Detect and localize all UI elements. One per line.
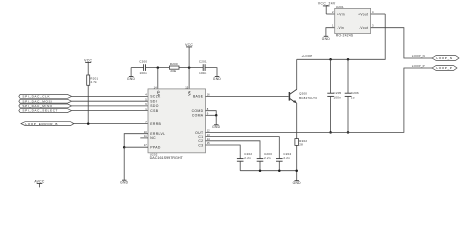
svg-text:C206: C206 [351,91,359,95]
svg-text:SPI_DAC_MISO: SPI_DAC_MISO [22,104,52,108]
ground GND (right of C201) [213,77,222,82]
svg-text:C3: C3 [198,143,203,147]
wire R201 to ERRB net [87,85,89,123]
port SPI_DAC_SELECT [19,109,72,113]
svg-text:R200: R200 [170,62,178,66]
svg-text:VD: VD [156,90,160,96]
svg-text:ERRB: ERRB [150,122,161,126]
wire PPAD [124,146,148,148]
capacitor C206 [345,59,359,132]
svg-text:100n: 100n [199,71,207,75]
svg-text:SPI_DAC_SELECT: SPI_DAC_SELECT [22,109,58,113]
svg-text:LOOP_N: LOOP_N [436,56,452,60]
svg-text:10: 10 [144,130,147,134]
ground GND (bottom right) [293,181,302,186]
power VCC_24V [318,2,336,14]
svg-text:GND: GND [213,77,222,81]
wire ERRLVL to PPAD junction [124,134,148,148]
capacitor C201 [199,60,207,75]
wire to gnd [215,115,217,124]
port LOOP_ERROR_B [21,122,74,126]
dc-dc module U201 RO-2424S [335,5,371,38]
wire +Vout to +LOOP rail [371,13,386,15]
svg-text:+Vin: +Vin [337,12,345,16]
wire R202 to rail [296,145,298,180]
pin numbers U201 [332,10,374,28]
port SPI_DAC_MOSI [19,99,72,103]
svg-text:SDI: SDI [150,100,157,104]
pin numbers U202 right [207,93,210,146]
svg-text:LOOP_ERROR_B: LOOP_ERROR_B [25,122,58,126]
svg-text:GND: GND [127,77,136,81]
resistor R200 [169,62,179,73]
svg-text:20E: 20E [170,69,176,73]
wire SPI_DAC_MOSI to SDI [72,100,148,102]
power AVCC (bottom left) [34,179,45,187]
svg-text:BASE: BASE [193,95,204,99]
junction C204 bottom [278,169,281,172]
svg-text:COMD: COMD [192,109,204,113]
svg-text:VCC: VCC [84,58,92,62]
wire SPI_DAC_SELECT to CSB [72,110,148,112]
ground GND (below PPAD net) [120,180,129,185]
svg-text:28: 28 [299,143,303,147]
wire collector up [296,59,298,89]
svg-text:RO-2424S: RO-2424S [336,33,353,37]
svg-text:14: 14 [154,85,157,89]
svg-text:C201: C201 [199,60,207,64]
svg-text:SDO: SDO [150,104,158,108]
svg-text:BC847CLT3: BC847CLT3 [299,96,317,100]
capacitor C200 [139,60,147,75]
capacitor C203 [257,152,272,171]
svg-text:GND: GND [322,37,331,41]
node +LOOP rail [297,14,386,59]
junction VD node [157,66,160,69]
resistor R201 [87,75,99,85]
svg-text:VCC: VCC [185,43,193,47]
svg-text:VCC_24V: VCC_24V [318,2,336,6]
junction R202/rail [295,169,298,172]
wire emitter down to R202 [296,103,298,139]
resistor R202 [295,139,307,147]
svg-text:C200: C200 [139,60,147,64]
junction C206 bottom [347,131,350,134]
junction VA node [188,66,191,69]
wire NC stub [140,137,148,139]
svg-text:1u: 1u [351,95,355,99]
wire VD stem [157,68,159,89]
svg-text:SPI_DAC_MOSI: SPI_DAC_MOSI [22,99,52,103]
junction C203 bottom [259,169,262,172]
junction ERRLVL/PPAD [123,146,126,149]
capacitor C202 [237,152,252,171]
wire C1 to C204 [206,137,280,159]
svg-text:+Vout: +Vout [358,12,368,16]
svg-text:VA: VA [188,90,192,95]
ground GND (left of C200) [127,68,136,81]
svg-text:NC: NC [150,136,156,140]
svg-text:COMA: COMA [192,114,204,118]
wire R200 to VA node [179,67,203,69]
wire LOOP_ERROR_B to ERRB [73,123,148,125]
svg-text:GND: GND [120,181,129,185]
svg-text:14: 14 [207,137,210,141]
svg-text:LOOP_P: LOOP_P [436,66,452,70]
capacitor C205 [327,59,341,132]
power VCC (above VA) [185,43,193,89]
wire +Vin [326,13,335,15]
wire bottom rail [240,170,297,172]
svg-text:U201: U201 [336,5,344,9]
svg-text:100n: 100n [334,95,342,99]
svg-text:LOOP_P: LOOP_P [412,64,425,68]
junction C205 top [329,58,332,61]
svg-text:-Vin: -Vin [337,26,344,30]
svg-text:+LOOP: +LOOP [302,54,313,58]
port LOOP_P [432,66,457,71]
svg-text:CSB: CSB [150,109,158,113]
svg-text:AVCC: AVCC [34,179,45,183]
wire C200 to VD node [146,67,170,69]
capacitor C204 [276,152,291,171]
wire SPI_DAC_MISO to SDO [72,105,148,107]
wire BASE to Q200 [206,95,289,97]
ground GND (U201 -Vin) [322,36,331,41]
wire C2 to C203 [206,141,261,159]
wire C201 to right gnd [205,68,217,77]
op-amp U202 DAC161S997 body [148,89,206,160]
transistor Q200 [289,89,317,103]
ground GND (below COMA) [212,125,221,129]
junction COMD/COMA [215,114,218,117]
svg-text:13: 13 [207,133,210,137]
port SPI_DAC_CLK [19,95,72,99]
svg-text:DAC161S997RGHT: DAC161S997RGHT [150,156,183,160]
svg-text:SPI_DAC_CLK: SPI_DAC_CLK [22,95,50,99]
svg-text:15: 15 [207,141,210,145]
svg-text:2.2n: 2.2n [264,156,271,160]
svg-text:15: 15 [185,85,188,89]
wire COMA [206,114,217,116]
svg-text:4.7k: 4.7k [90,80,97,84]
wire COMD [206,111,217,116]
wire gnd to C200 [131,67,144,69]
junction C205 bottom [329,131,332,134]
junction R201/ERRB [87,122,90,125]
port LOOP_N [432,56,459,61]
svg-text:Q200: Q200 [299,91,307,95]
wire -Vout to LOOP_N [371,28,432,58]
wire down to gnd [123,147,125,180]
svg-text:GND: GND [212,125,221,129]
svg-text:100n: 100n [140,71,148,75]
svg-text:17: 17 [144,143,147,147]
svg-text:LOOP_N: LOOP_N [412,54,425,58]
svg-text:2.2n: 2.2n [283,156,290,160]
power VCC (above R201) [84,58,92,75]
wire -Vin [326,28,335,37]
svg-text:C205: C205 [334,91,342,95]
wire SPI_DAC_CLK to SCLK [72,95,148,97]
port SPI_DAC_MISO [19,104,72,108]
pin numbers U202 left [144,85,189,147]
wire C3 to C202 [206,145,241,159]
svg-text:-Vout: -Vout [359,26,368,30]
svg-text:GND: GND [293,181,302,185]
wire OUT rail to LOOP_P [206,68,433,132]
svg-text:PPAD: PPAD [150,145,161,149]
junction C206 top [347,58,350,61]
svg-text:2.2n: 2.2n [244,156,251,160]
